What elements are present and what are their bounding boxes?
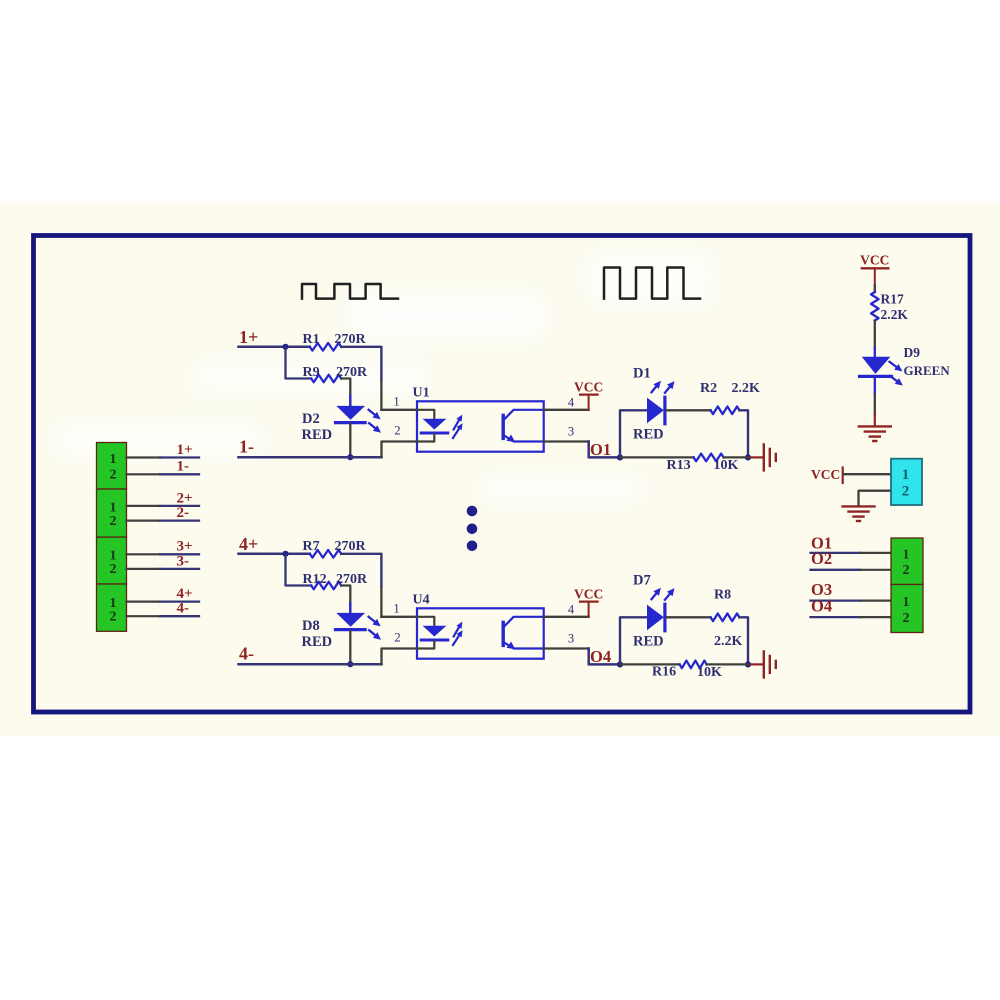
wire VCC to power pin 1 xyxy=(844,473,891,475)
input terminal block J1 xyxy=(97,443,127,490)
svg-text:1: 1 xyxy=(393,394,399,408)
svg-text:2.2K: 2.2K xyxy=(881,307,909,322)
svg-text:2: 2 xyxy=(110,514,117,529)
label GREEN (D9) xyxy=(904,363,951,378)
wire R17 to D9 xyxy=(874,321,876,358)
svg-text:2: 2 xyxy=(903,563,910,578)
svg-text:O4: O4 xyxy=(590,647,611,666)
label 270R (R7) xyxy=(335,539,367,554)
wire R12 to D8 anode xyxy=(341,586,350,613)
svg-text:D7: D7 xyxy=(633,572,651,588)
optocoupler U1 label xyxy=(413,386,430,401)
terminal pin 1 digit (block 1) xyxy=(110,452,117,467)
svg-text:1+: 1+ xyxy=(239,327,258,347)
pin 2 label (U1) xyxy=(394,424,400,438)
label 270R (R12) xyxy=(336,572,368,587)
svg-text:RED: RED xyxy=(302,427,333,443)
junction dot 4+ xyxy=(282,551,288,557)
wire O4 to connector xyxy=(811,616,892,618)
ground symbol (O1) xyxy=(751,444,776,470)
svg-text:1: 1 xyxy=(903,548,910,563)
wire O1 up to D1 xyxy=(620,410,647,457)
ground symbol (power connector) xyxy=(843,506,875,521)
resistor R13 10K xyxy=(694,454,724,462)
U1 internal LED bar xyxy=(421,432,448,435)
svg-text:1: 1 xyxy=(110,452,117,467)
VCC symbol (U4) xyxy=(580,602,598,617)
svg-text:2+: 2+ xyxy=(177,490,193,506)
LED D1 triangle xyxy=(647,398,664,424)
wire O3 to connector xyxy=(811,599,892,601)
pin 4 label (U4) xyxy=(568,603,575,617)
wire pin2 corner xyxy=(382,442,418,458)
wire D2 cathode down xyxy=(349,424,351,457)
wire D9 to ground xyxy=(874,378,876,426)
wire pin2 corner xyxy=(382,649,418,665)
LED D2 triangle xyxy=(336,406,365,420)
junction dot at ground node (O1) xyxy=(745,454,751,460)
output pin digits J5 xyxy=(903,548,910,579)
wire O1 to R13 xyxy=(620,456,694,458)
svg-text:4: 4 xyxy=(568,603,575,617)
U4 internal LED bar xyxy=(421,639,448,642)
svg-text:10K: 10K xyxy=(714,458,739,473)
label D1 xyxy=(633,365,651,381)
svg-text:4-: 4- xyxy=(239,643,254,663)
svg-text:D8: D8 xyxy=(302,618,320,634)
label RED (D8) xyxy=(302,634,333,650)
label 270R (R1) xyxy=(335,332,367,347)
pin 3 label (U1) xyxy=(568,424,574,438)
resistor R17 2.2K xyxy=(871,292,879,321)
label D7 xyxy=(633,572,651,588)
terminal pin 1 digit (block 3) xyxy=(110,549,117,564)
resistor R2 2.2K xyxy=(711,407,740,415)
LED D9 triangle xyxy=(862,357,891,374)
svg-text:O2: O2 xyxy=(811,549,832,568)
label RED (D2) xyxy=(302,427,333,443)
LED D7 triangle xyxy=(647,605,664,631)
wire power pin 2 to ground xyxy=(859,491,892,506)
label R9 xyxy=(303,365,320,380)
svg-text:R17: R17 xyxy=(881,291,904,306)
wire 1+ rail xyxy=(239,346,310,349)
svg-text:R1: R1 xyxy=(303,332,320,347)
wire D7 to R8 xyxy=(666,616,710,618)
svg-text:3: 3 xyxy=(568,424,574,438)
LED D9 cathode bar xyxy=(860,375,892,378)
svg-text:2.2K: 2.2K xyxy=(732,381,761,396)
resistor R12 270R xyxy=(311,582,341,590)
label 3+ xyxy=(177,539,193,555)
label 1+ xyxy=(239,327,258,347)
wire pin4 to VCC xyxy=(544,616,589,618)
svg-text:VCC: VCC xyxy=(574,586,603,601)
wire R13 to ground xyxy=(724,456,748,458)
svg-text:1: 1 xyxy=(903,595,910,610)
U4 phototransistor collector xyxy=(504,617,544,627)
resistor R1 270R xyxy=(310,343,341,351)
wire R9 to D2 anode xyxy=(341,379,350,406)
pin 1 label (U1) xyxy=(393,394,399,408)
label O4 (output connector) xyxy=(811,596,832,615)
label 2.2K (R8) xyxy=(714,634,743,649)
LED D7 emission arrows xyxy=(652,588,675,600)
label O1 (output connector) xyxy=(811,534,832,553)
VCC tick bar xyxy=(842,468,844,484)
power connector P1 body xyxy=(891,459,922,505)
terminal pin 1 digit (block 4) xyxy=(110,596,117,611)
svg-text:2: 2 xyxy=(902,483,910,499)
terminal pin 1 digit (block 2) xyxy=(110,500,117,515)
wire D1 to R2 xyxy=(666,409,710,411)
square wave symbol (input side) xyxy=(302,284,398,299)
wire stub 2- xyxy=(127,519,200,521)
label R1 xyxy=(303,332,320,347)
ellipsis dots between channels xyxy=(467,506,478,551)
svg-text:RED: RED xyxy=(633,634,664,650)
U1 phototransistor base bar xyxy=(502,415,505,438)
U1 phototransistor emitter xyxy=(504,435,544,443)
wire pin3 to O1 xyxy=(544,442,620,458)
svg-text:2-: 2- xyxy=(177,505,190,521)
wire branch down to R12 xyxy=(286,554,312,586)
svg-text:VCC: VCC xyxy=(574,379,603,394)
U4 phototransistor base bar xyxy=(502,622,505,645)
label R13 xyxy=(667,458,691,473)
VCC symbol (indicator) xyxy=(862,268,889,285)
junction dot at ground node (O4) xyxy=(745,661,751,667)
label 1+ xyxy=(177,442,193,458)
label R7 xyxy=(303,539,320,554)
svg-text:1+: 1+ xyxy=(177,442,193,458)
ground symbol (D9) xyxy=(859,426,891,441)
power pin 1 digit xyxy=(902,467,910,483)
svg-text:1-: 1- xyxy=(177,459,190,475)
label D2 xyxy=(302,411,320,427)
wire VCC to R17 xyxy=(874,286,876,293)
label R12 xyxy=(303,572,327,587)
white highlight patches xyxy=(55,252,713,502)
optocoupler U4 body xyxy=(417,608,544,658)
junction dot 1- xyxy=(347,454,353,460)
wire stub 3+ xyxy=(127,553,200,555)
svg-text:4+: 4+ xyxy=(177,586,193,602)
ground symbol (O4) xyxy=(751,651,776,677)
label 4+ xyxy=(177,586,193,602)
wire R16 to ground xyxy=(707,663,748,665)
pin 2 label (U4) xyxy=(394,631,400,645)
cream schematic background xyxy=(0,203,1000,736)
terminal pin 2 digit (block 4) xyxy=(110,610,117,625)
svg-text:D1: D1 xyxy=(633,365,651,381)
wire stub 1- xyxy=(127,473,200,475)
wire R7 to pin1 corner xyxy=(341,554,417,617)
U4 light arrows xyxy=(453,622,463,645)
label O2 (output connector) xyxy=(811,549,832,568)
schematic border frame xyxy=(34,236,971,713)
label D8 xyxy=(302,618,320,634)
svg-text:1: 1 xyxy=(902,467,910,483)
label 2.2K (R2) xyxy=(732,381,761,396)
terminal pin 2 digit (block 1) xyxy=(110,468,117,483)
U4 internal LED cathode lead xyxy=(417,641,434,648)
svg-text:U4: U4 xyxy=(413,593,430,608)
label VCC (U1) xyxy=(574,379,603,394)
svg-text:2: 2 xyxy=(110,610,117,625)
pin 3 label (U4) xyxy=(568,631,574,645)
label 2+ xyxy=(177,490,193,506)
svg-text:RED: RED xyxy=(633,427,664,443)
junction dot 1+ xyxy=(282,344,288,350)
label 4+ xyxy=(239,534,258,554)
label R2 xyxy=(700,381,717,396)
wire stub 4- xyxy=(127,615,200,617)
wire R8 down to rail xyxy=(739,617,748,664)
label RED (D1) xyxy=(633,427,664,443)
svg-text:R2: R2 xyxy=(700,381,717,396)
label 2.2K (R17) xyxy=(881,307,909,322)
wire stub 1+ xyxy=(127,456,200,458)
label R8 xyxy=(714,588,731,603)
svg-text:2: 2 xyxy=(903,611,910,626)
svg-text:2.2K: 2.2K xyxy=(714,634,743,649)
power pin 2 digit xyxy=(902,483,910,499)
input terminal block J2 xyxy=(97,489,127,537)
LED D2 cathode bar xyxy=(336,421,366,424)
label 3- xyxy=(177,553,190,569)
label 1- xyxy=(177,459,190,475)
wire stub 4+ xyxy=(127,600,200,602)
label D9 xyxy=(904,345,921,360)
svg-text:D2: D2 xyxy=(302,411,320,427)
label RED (D7) xyxy=(633,634,664,650)
label 10K (R13) xyxy=(714,458,739,473)
wire R2 down to rail xyxy=(739,410,748,457)
label 10K (R16) xyxy=(697,665,722,680)
wire D8 cathode down xyxy=(349,631,351,664)
svg-text:R13: R13 xyxy=(667,458,691,473)
U1 phototransistor collector xyxy=(504,410,544,420)
wire branch down to R9 xyxy=(286,347,312,379)
svg-text:10K: 10K xyxy=(697,665,722,680)
U1 internal LED lead xyxy=(417,410,434,419)
label 1- xyxy=(239,436,254,456)
LED D8 cathode bar xyxy=(336,628,366,631)
wire pin4 to VCC xyxy=(544,409,589,411)
junction dot 4- xyxy=(347,661,353,667)
LED D8 emission arrows xyxy=(369,617,381,640)
wire 4+ rail xyxy=(239,553,310,556)
svg-text:2: 2 xyxy=(394,631,400,645)
wire pin3 to O4 xyxy=(544,649,620,665)
optocoupler U4 label xyxy=(413,593,430,608)
LED D1 cathode bar xyxy=(663,397,666,424)
wire O4 to R16 xyxy=(620,663,680,665)
U4 internal LED lead xyxy=(417,617,434,626)
svg-text:4-: 4- xyxy=(177,601,190,617)
svg-text:2: 2 xyxy=(110,562,117,577)
U1 internal LED cathode lead xyxy=(417,434,434,441)
wire 4- rail xyxy=(239,663,382,666)
svg-text:270R: 270R xyxy=(335,332,367,347)
U1 internal LED triangle xyxy=(423,419,447,430)
label O4 xyxy=(590,647,611,666)
wire R1 to pin1 corner xyxy=(341,347,417,410)
terminal pin 2 digit (block 2) xyxy=(110,514,117,529)
output connector block J5 xyxy=(891,538,923,585)
input terminal block J3 xyxy=(97,537,127,584)
square wave symbol (output side) xyxy=(604,268,700,299)
svg-text:R7: R7 xyxy=(303,539,320,554)
svg-text:VCC: VCC xyxy=(811,467,840,482)
label 4- xyxy=(177,601,190,617)
svg-text:U1: U1 xyxy=(413,386,430,401)
LED D9 emission arrows xyxy=(890,362,903,386)
svg-text:3+: 3+ xyxy=(177,539,193,555)
label VCC (U4) xyxy=(574,586,603,601)
svg-text:R8: R8 xyxy=(714,588,731,603)
output connector block J6 xyxy=(891,585,923,633)
svg-text:GREEN: GREEN xyxy=(904,363,951,378)
LED D7 cathode bar xyxy=(663,604,666,631)
svg-text:270R: 270R xyxy=(335,539,367,554)
U4 internal LED triangle xyxy=(423,626,447,637)
label R16 xyxy=(652,664,676,679)
svg-text:O4: O4 xyxy=(811,596,832,615)
svg-text:RED: RED xyxy=(302,634,333,650)
LED D1 emission arrows xyxy=(652,381,675,393)
svg-text:R9: R9 xyxy=(303,365,320,380)
U4 phototransistor emitter xyxy=(504,642,544,650)
pin 1 label (U4) xyxy=(393,601,399,615)
label VCC (indicator) xyxy=(860,253,889,268)
svg-text:D9: D9 xyxy=(904,345,921,360)
svg-text:VCC: VCC xyxy=(860,253,889,268)
LED D8 anode stub xyxy=(349,603,351,614)
svg-text:1-: 1- xyxy=(239,436,254,456)
label 2- xyxy=(177,505,190,521)
VCC symbol (U1) xyxy=(580,395,598,410)
label 4- xyxy=(239,643,254,663)
wire O4 up to D7 xyxy=(620,617,647,664)
junction dot O4 xyxy=(617,661,623,667)
svg-text:4+: 4+ xyxy=(239,534,258,554)
wire stub 3- xyxy=(127,568,200,570)
resistor R9 270R xyxy=(311,375,341,383)
wire O2 to connector xyxy=(811,569,892,571)
wire stub 2+ xyxy=(127,505,200,507)
U1 light arrows xyxy=(453,415,463,438)
svg-text:1: 1 xyxy=(393,601,399,615)
optocoupler U1 body xyxy=(417,401,544,451)
svg-text:R16: R16 xyxy=(652,664,676,679)
label O1 xyxy=(590,440,611,459)
svg-text:4: 4 xyxy=(568,396,575,410)
svg-text:R12: R12 xyxy=(303,572,327,587)
svg-text:O1: O1 xyxy=(590,440,611,459)
terminal pin 2 digit (block 3) xyxy=(110,562,117,577)
label VCC (power connector) xyxy=(811,467,840,482)
resistor R7 270R xyxy=(310,550,341,558)
pin 4 label (U1) xyxy=(568,396,575,410)
label 270R (R9) xyxy=(336,365,368,380)
LED D2 anode stub xyxy=(349,396,351,407)
svg-text:3: 3 xyxy=(568,631,574,645)
svg-text:2: 2 xyxy=(394,424,400,438)
input terminal block J4 xyxy=(97,584,127,631)
wire 1- rail xyxy=(239,456,382,459)
svg-text:2: 2 xyxy=(110,468,117,483)
svg-text:3-: 3- xyxy=(177,553,190,569)
wire O1 to connector xyxy=(811,552,892,554)
LED D2 emission arrows xyxy=(369,410,381,433)
output pin digits J6 xyxy=(903,595,910,626)
LED D8 triangle xyxy=(336,613,365,627)
resistor R16 10K xyxy=(680,661,707,669)
resistor R8 2.2K xyxy=(711,614,740,622)
label R17 xyxy=(881,291,904,306)
junction dot O1 xyxy=(617,454,623,460)
label O3 (output connector) xyxy=(811,580,832,599)
